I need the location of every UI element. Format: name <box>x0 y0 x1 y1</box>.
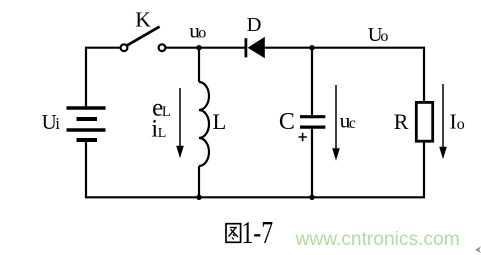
svg-text:D: D <box>247 14 262 36</box>
svg-text:R: R <box>394 109 409 134</box>
svg-text:1-7: 1-7 <box>241 216 273 251</box>
svg-text:C: C <box>279 109 295 135</box>
svg-text:I: I <box>450 110 457 134</box>
svg-text:i: i <box>55 114 60 133</box>
svg-text:o: o <box>380 28 388 45</box>
svg-text:www.cntronics.com: www.cntronics.com <box>295 229 460 250</box>
svg-text:c: c <box>349 115 356 132</box>
svg-text:L: L <box>213 109 227 134</box>
svg-text:o: o <box>457 116 465 133</box>
svg-text:o: o <box>198 25 206 42</box>
svg-text:K: K <box>135 7 151 31</box>
svg-text:L: L <box>162 104 171 120</box>
svg-text:L: L <box>158 126 167 141</box>
